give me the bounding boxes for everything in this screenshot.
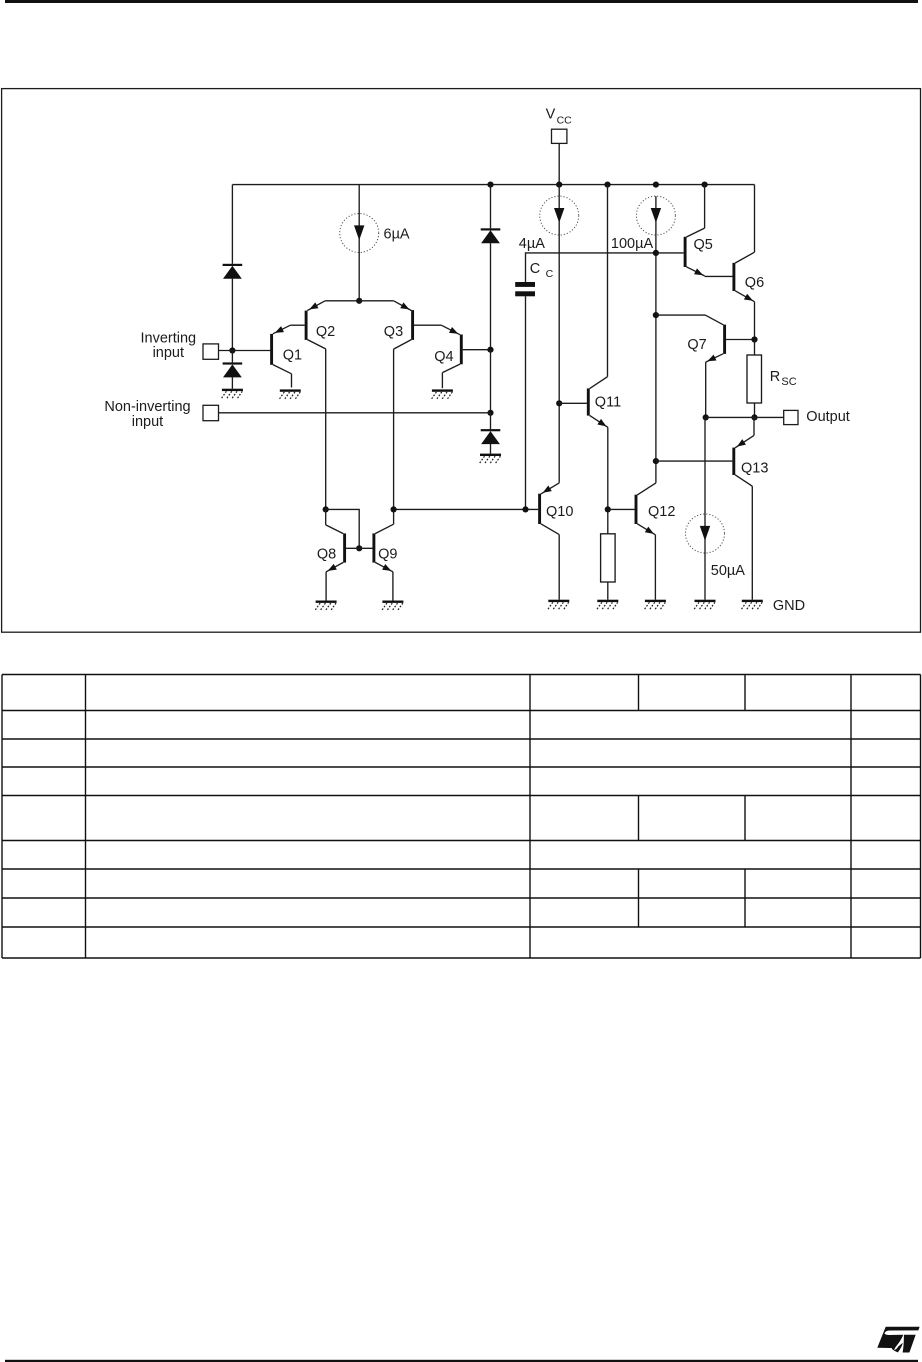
schematic frame	[2, 89, 921, 633]
transistor Q8	[326, 525, 346, 601]
wire VCC box to rail	[558, 143, 560, 184]
svg-text:Q9: Q9	[378, 547, 397, 563]
inverting input terminal box	[203, 344, 219, 359]
VCC terminal box	[552, 129, 567, 143]
node Q5 base	[653, 250, 659, 256]
wire non-inverting input	[219, 412, 491, 414]
svg-text:V: V	[546, 106, 556, 122]
wire Q2 collector down	[325, 509, 327, 525]
output terminal box	[784, 410, 798, 424]
Cc label	[530, 261, 554, 280]
wire Q6 emitter to Rsc	[754, 340, 756, 356]
node non-inverting	[487, 410, 493, 416]
svg-text:6µA: 6µA	[384, 227, 410, 243]
wire 4uA down to Q11 base node	[558, 235, 560, 483]
Q10 label	[546, 504, 573, 520]
transistor Q5	[684, 185, 705, 276]
svg-text:Q1: Q1	[283, 348, 302, 364]
ground under D5	[221, 389, 243, 400]
Q3 label	[384, 324, 403, 340]
ground under Q9	[381, 601, 403, 612]
transistor Q11	[587, 185, 608, 534]
wire rail to D2	[490, 185, 492, 229]
node rail-Q11	[604, 182, 610, 188]
ground under 50uA	[693, 600, 715, 611]
wire Q5 emitter to Q6 base	[705, 275, 733, 277]
svg-text:4µA: 4µA	[519, 236, 545, 252]
VCC rail	[232, 184, 754, 186]
node Q8 Q9 base	[356, 545, 362, 551]
transistor Q6	[732, 185, 754, 340]
wire 50uA to ground	[704, 553, 706, 600]
svg-text:Q8: Q8	[317, 547, 336, 563]
wire Q8 bases link	[326, 509, 360, 548]
svg-text:Q13: Q13	[741, 461, 768, 477]
wire output line	[706, 416, 784, 418]
node Cc bottom	[522, 506, 528, 512]
wire Q13 base	[656, 460, 733, 462]
wire D5 to ground	[231, 377, 233, 389]
Q9 label	[378, 547, 397, 563]
Q13 label	[741, 461, 768, 477]
node Q7 collector	[653, 312, 659, 318]
node output	[751, 414, 757, 420]
wire Cc top	[526, 253, 656, 282]
4uA label	[519, 236, 545, 252]
svg-text:Output: Output	[806, 409, 850, 425]
ground under Q8	[315, 601, 337, 612]
wire 100uA down	[655, 235, 657, 483]
node Q2 collector	[323, 506, 329, 512]
capacitor Cc	[515, 282, 535, 296]
Rsc label	[770, 369, 797, 388]
transistor Q3	[394, 301, 414, 524]
wire Q11 base	[559, 402, 587, 404]
current source 4uA	[540, 196, 579, 235]
transistor Q1	[270, 325, 305, 387]
Q6 label	[745, 275, 764, 291]
diode D1	[223, 264, 243, 279]
wire rail to 4uA source	[558, 185, 560, 197]
node rail-VCC	[556, 182, 562, 188]
ST logo	[877, 1327, 919, 1353]
node rail-D2	[487, 182, 493, 188]
svg-text:Q5: Q5	[694, 237, 713, 253]
transistor Q13	[732, 417, 754, 599]
Non-inverting input label	[104, 399, 190, 430]
ground under Q13	[741, 600, 763, 611]
svg-text:Q6: Q6	[745, 275, 764, 291]
node Q11 emitter	[605, 506, 611, 512]
Q2 label	[316, 324, 335, 340]
current source 100uA	[636, 196, 675, 235]
Q7 label	[687, 337, 706, 353]
Q1 label	[283, 348, 302, 364]
wire Cc bottom	[525, 296, 527, 509]
wire input node to D5	[231, 351, 233, 363]
resistor R1	[601, 534, 616, 582]
ground under Q1	[279, 389, 301, 400]
wire Q4 base	[463, 349, 491, 351]
svg-text:CC: CC	[557, 114, 573, 126]
top rule	[5, 0, 918, 3]
transistor Q12	[635, 483, 656, 600]
svg-text:C: C	[546, 268, 554, 280]
diode D2	[481, 228, 501, 243]
wire D2 to Q4 base node	[490, 243, 492, 350]
ground under R1	[596, 600, 618, 611]
node Rsc top	[751, 336, 757, 342]
wire output to 50uA source	[704, 417, 706, 514]
diode D3	[481, 429, 501, 444]
wire Q5 base	[656, 252, 684, 254]
node Q3 collector	[391, 506, 397, 512]
wire non-inverting node to D3	[490, 413, 492, 429]
wire Rsc to output	[754, 403, 756, 417]
resistor Rsc	[747, 355, 762, 403]
wire Q10 base	[394, 508, 539, 510]
wire R1 to ground	[607, 582, 609, 600]
current source 50uA	[686, 514, 725, 553]
svg-text:Q11: Q11	[595, 394, 621, 410]
wire center node to Q3 emitter	[359, 300, 393, 302]
wire rail to 6uA source	[358, 185, 360, 214]
transistor Q9	[372, 524, 393, 600]
svg-text:R: R	[770, 369, 780, 385]
table grid	[2, 675, 921, 959]
wire Q7 base	[726, 339, 755, 341]
wire Q2 emitter to center node	[325, 300, 359, 302]
100uA label	[611, 236, 654, 252]
Output label	[806, 409, 850, 425]
Inverting input label	[140, 330, 196, 361]
svg-text:input: input	[153, 345, 184, 361]
node Q11 base	[556, 400, 562, 406]
VCC label	[546, 106, 573, 126]
node Q7 emitter output	[703, 414, 709, 420]
ground under D3	[479, 454, 501, 465]
Q12 label	[648, 504, 675, 520]
svg-text:GND: GND	[773, 598, 805, 614]
GND label	[773, 598, 805, 614]
svg-text:100µA: 100µA	[611, 236, 654, 252]
current source 6uA	[340, 214, 379, 253]
ground under Q10	[547, 600, 569, 611]
node Q13 base	[653, 458, 659, 464]
svg-text:Q4: Q4	[434, 349, 453, 365]
node rail-100uA	[653, 182, 659, 188]
node Q4 base	[487, 347, 493, 353]
svg-text:Q7: Q7	[687, 337, 706, 353]
svg-text:50µA: 50µA	[711, 563, 745, 579]
bottom rule	[5, 1360, 918, 1362]
svg-text:input: input	[132, 414, 163, 430]
node rail-Q5	[702, 182, 708, 188]
wire D3 to ground	[490, 444, 492, 454]
wire Q12 base	[608, 508, 635, 510]
wire rail to D1	[231, 185, 233, 264]
svg-text:Q2: Q2	[316, 324, 335, 340]
diode D5	[223, 362, 243, 377]
non-inverting input terminal box	[203, 405, 219, 420]
Q5 label	[694, 237, 713, 253]
ground under Q12	[644, 600, 666, 611]
wire Q4 base node to non-inverting node	[490, 350, 492, 413]
50uA label	[711, 563, 745, 579]
transistor Q4	[441, 325, 462, 388]
svg-text:Q3: Q3	[384, 324, 403, 340]
svg-text:Q10: Q10	[546, 504, 573, 520]
transistor Q7	[706, 315, 727, 417]
svg-text:Q12: Q12	[648, 504, 675, 520]
Q8 label	[317, 547, 336, 563]
svg-text:SC: SC	[781, 376, 796, 388]
wire 6uA to center node	[358, 253, 360, 301]
svg-text:C: C	[530, 261, 540, 277]
ground under Q4	[431, 389, 453, 400]
Q11 label	[595, 394, 621, 410]
wire D1 to input node	[231, 279, 233, 351]
wire Q3 base to Q4 emitter	[414, 324, 441, 326]
node center input pair	[356, 298, 362, 304]
transistor Q10	[538, 483, 559, 600]
wire inverting input	[219, 350, 271, 352]
wire Q7 collector	[656, 314, 706, 316]
transistor Q2	[305, 301, 326, 510]
6uA label	[384, 227, 410, 243]
node inverting input	[229, 347, 235, 353]
Q4 label	[434, 349, 453, 365]
svg-text:Non-inverting: Non-inverting	[104, 399, 190, 415]
wire Q8 Q9 bases	[346, 547, 373, 549]
